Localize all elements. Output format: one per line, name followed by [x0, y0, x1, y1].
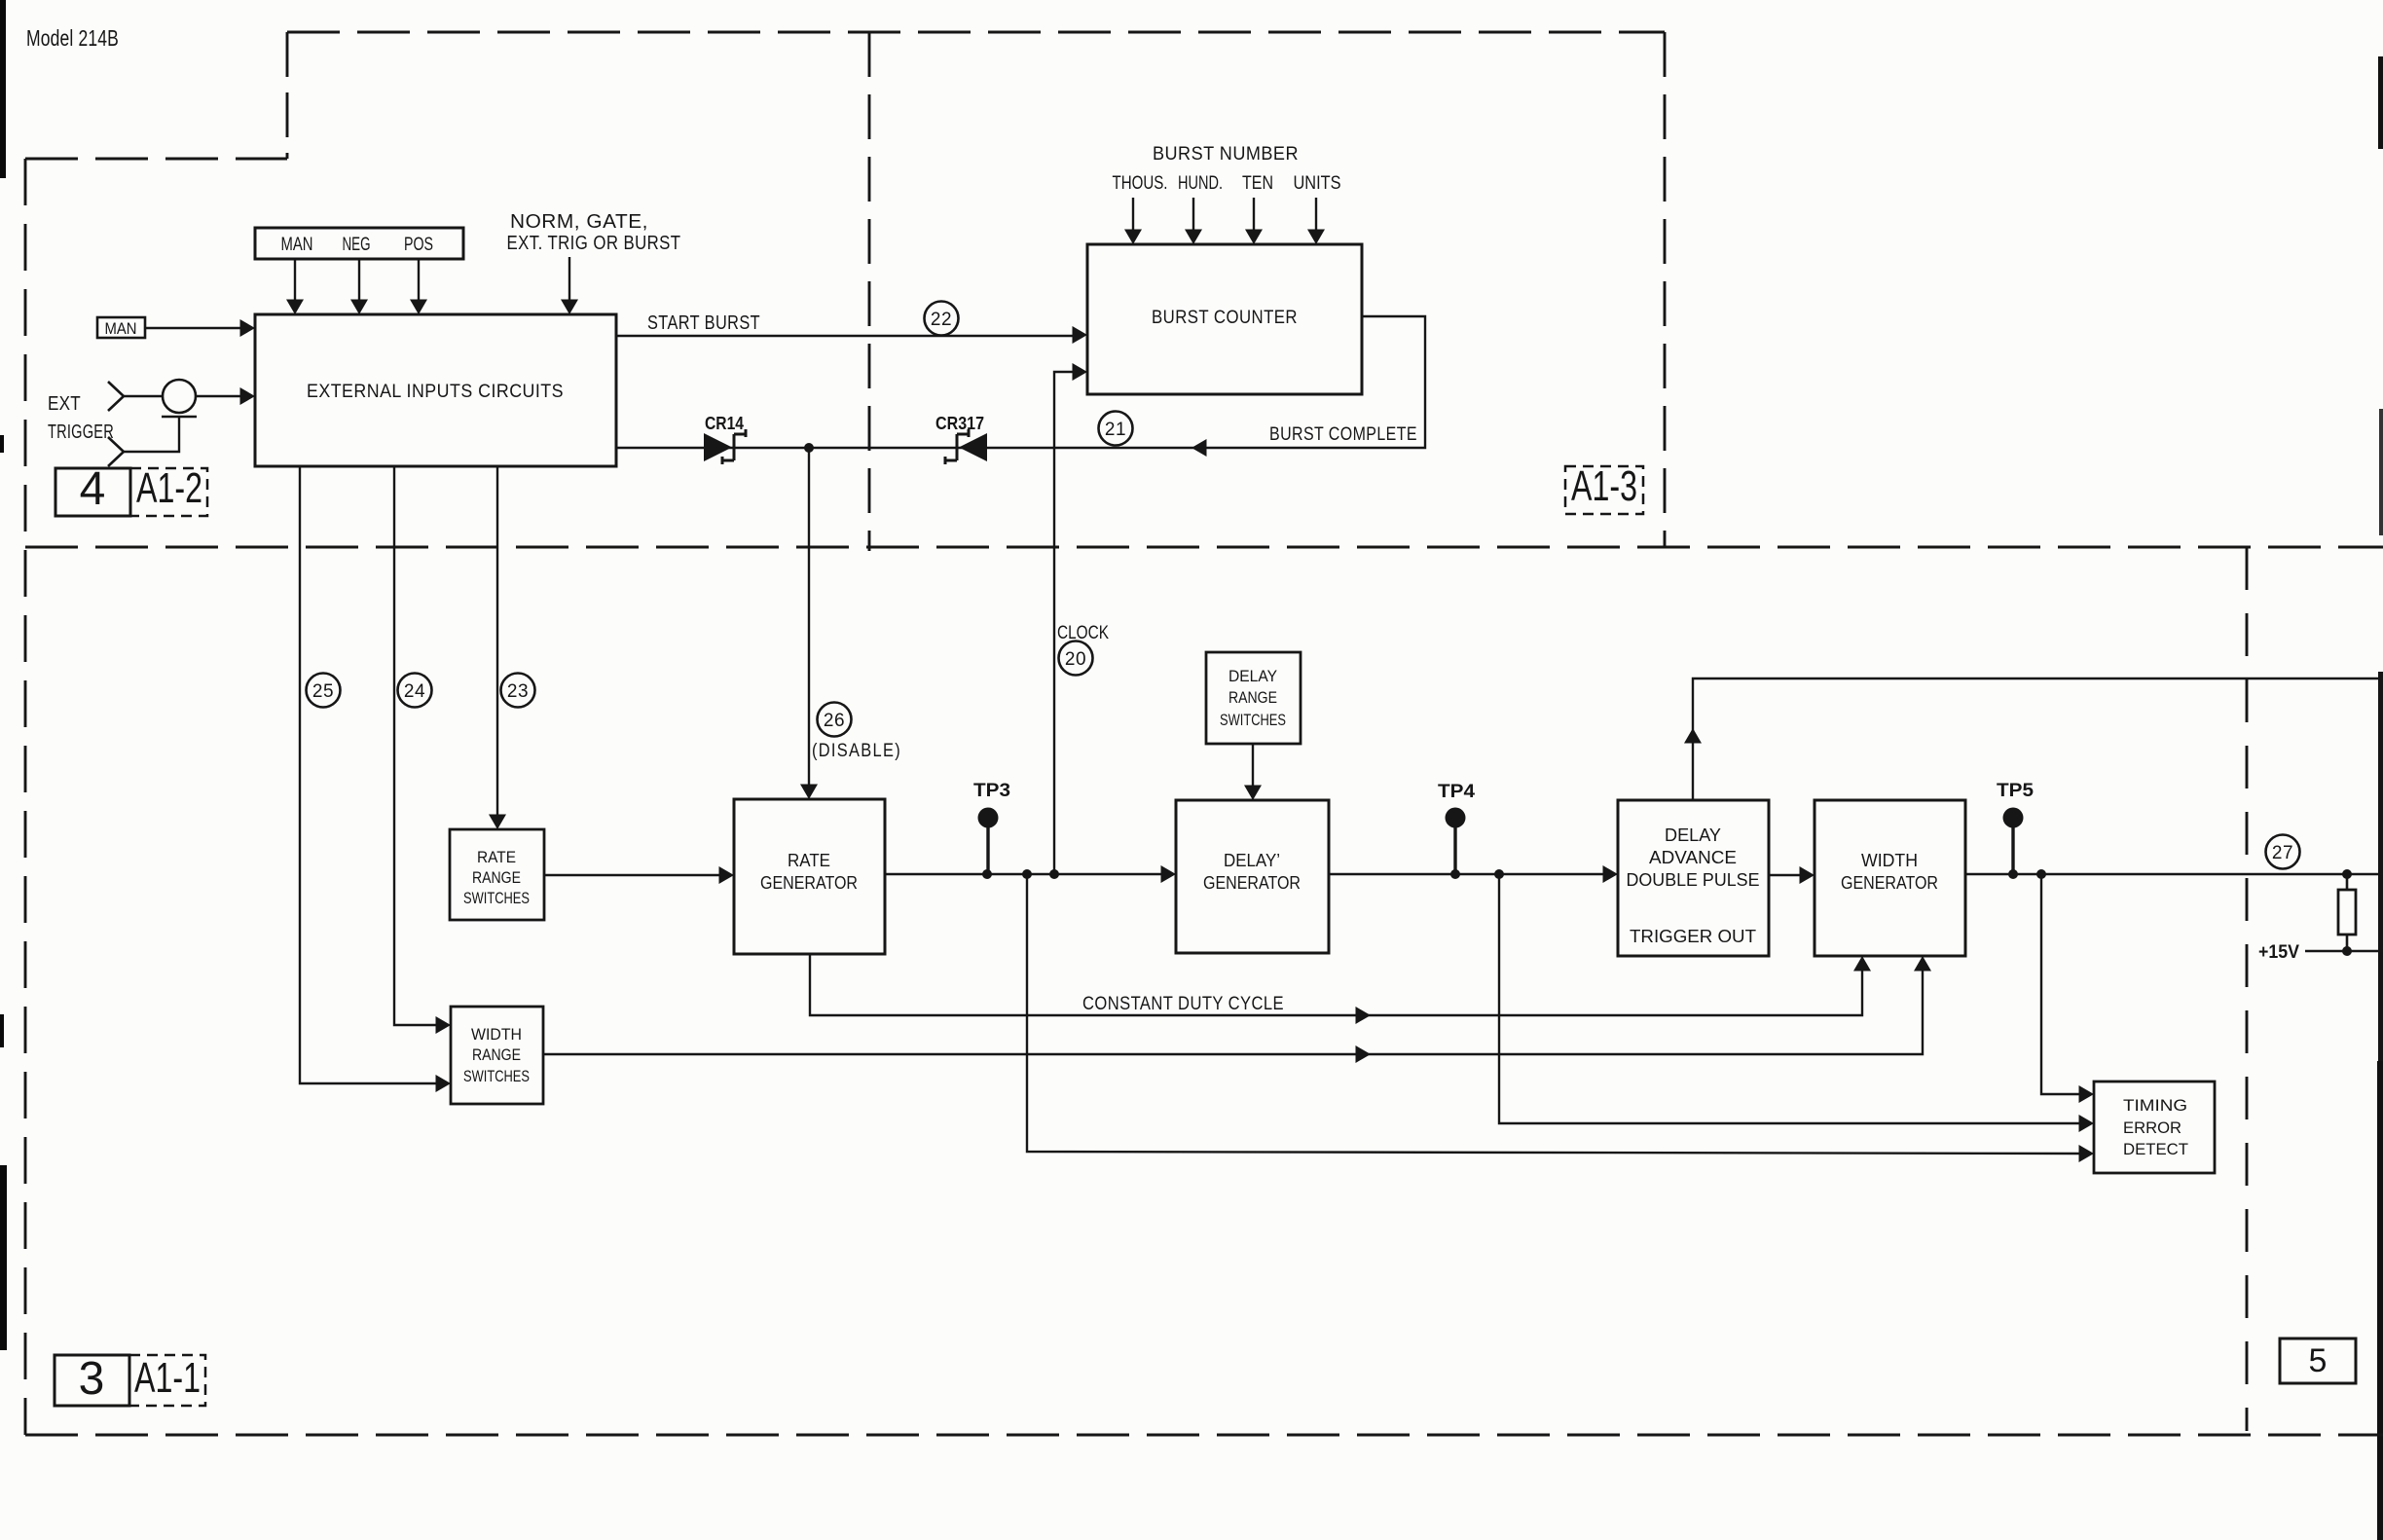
- wire HUND arrow: [1185, 198, 1202, 244]
- scan edge artifact left top: [0, 0, 6, 178]
- tag sheet 3: [55, 1353, 129, 1406]
- block RATE GENERATOR: [734, 799, 885, 954]
- label DISABLE: [812, 741, 901, 761]
- node junction tap-1055: [1022, 869, 1032, 879]
- svg-text:ERROR: ERROR: [2123, 1118, 2181, 1137]
- testpoint TP5: [1997, 781, 2034, 874]
- wire POS switch arrow: [410, 259, 427, 314]
- wire rate generator to delay generator: [885, 865, 1176, 883]
- scan edge artifact right band: [2377, 56, 2383, 1540]
- node circled 21: [1099, 412, 1133, 446]
- svg-text:CONSTANT DUTY CYCLE: CONSTANT DUTY CYCLE: [1082, 994, 1284, 1014]
- wire feed 25 to width range switches: [300, 466, 451, 1092]
- wire ext trigger to circle: [124, 395, 163, 397]
- svg-text:5: 5: [2309, 1342, 2328, 1379]
- wire width generator output: [1965, 873, 2383, 875]
- border A1-3 right vertical dashed: [1664, 32, 1667, 547]
- svg-text:GENERATOR: GENERATOR: [760, 873, 858, 893]
- arrow burst complete direction: [1191, 439, 1207, 457]
- node circled 20: [1059, 642, 1093, 676]
- svg-text:BURST NUMBER: BURST NUMBER: [1153, 144, 1299, 165]
- node junction +15V: [2342, 946, 2352, 956]
- border A1-2/A1-3 top dashed: [287, 31, 1665, 34]
- border A1-1 top dashed: [25, 546, 2383, 549]
- svg-text:NORM, GATE,: NORM, GATE,: [510, 211, 648, 233]
- node circled 24: [398, 674, 432, 708]
- svg-text:DETECT: DETECT: [2123, 1140, 2188, 1158]
- svg-text:SWITCHES: SWITCHES: [1220, 711, 1286, 729]
- wire delay advance to width generator: [1769, 866, 1815, 884]
- wire delay range to delay generator: [1244, 744, 1262, 800]
- label CONSTANT DUTY CYCLE: [1082, 994, 1284, 1014]
- svg-text:TEN: TEN: [1242, 173, 1273, 194]
- block EXTERNAL INPUTS CIRCUITS: [255, 314, 616, 466]
- svg-text:THOUS.: THOUS.: [1113, 173, 1168, 194]
- svg-text:NEG: NEG: [343, 235, 371, 255]
- wire circle to external inputs: [196, 387, 255, 405]
- wire clock net: [1054, 363, 1087, 874]
- svg-text:24: 24: [404, 681, 425, 702]
- svg-text:26: 26: [824, 711, 845, 731]
- node junction clock: [1049, 869, 1059, 879]
- svg-text:DELAY: DELAY: [1665, 825, 1721, 845]
- label NORM GATE EXT TRIG OR BURST: [507, 211, 681, 254]
- block RATE RANGE SWITCHES: [450, 829, 544, 920]
- svg-text:(DISABLE): (DISABLE): [812, 741, 901, 761]
- svg-text:UNITS: UNITS: [1294, 173, 1341, 194]
- svg-text:22: 22: [931, 310, 952, 330]
- svg-text:23: 23: [507, 681, 529, 702]
- svg-text:21: 21: [1105, 420, 1126, 440]
- label START BURST: [647, 312, 760, 334]
- svg-text:MAN: MAN: [281, 235, 313, 255]
- connector ext trigger lower chevron: [108, 437, 124, 466]
- block TIMING ERROR DETECT: [2094, 1082, 2215, 1173]
- label EXT TRIGGER: [48, 393, 114, 443]
- label CR317: [935, 414, 984, 433]
- border A1-1 right vertical dashed: [2246, 547, 2249, 1431]
- border A1-2 top-left step vertical dashed: [286, 32, 289, 159]
- node junction TP5: [2008, 869, 2018, 879]
- svg-text:WIDTH: WIDTH: [1861, 851, 1918, 870]
- svg-text:RANGE: RANGE: [472, 1045, 521, 1064]
- svg-text:A1-3: A1-3: [1571, 462, 1637, 510]
- svg-text:RANGE: RANGE: [472, 868, 521, 887]
- connector ext trigger upper chevron: [108, 382, 124, 411]
- svg-text:+15V: +15V: [2258, 942, 2299, 963]
- tag A1-1: [129, 1354, 205, 1406]
- wire feed 23 to rate range switches: [489, 466, 506, 829]
- svg-text:HUND.: HUND.: [1178, 173, 1223, 194]
- node junction TP4: [1450, 869, 1460, 879]
- title Model 214B: [26, 25, 119, 51]
- svg-text:RATE: RATE: [477, 848, 516, 866]
- wire tap to timing error middle input: [1499, 874, 2094, 1132]
- svg-text:TP3: TP3: [973, 781, 1010, 801]
- block WIDTH GENERATOR: [1815, 800, 1965, 956]
- scan edge artifact left bottom: [0, 1165, 7, 1350]
- svg-text:GENERATOR: GENERATOR: [1841, 873, 1938, 893]
- svg-text:TRIGGER OUT: TRIGGER OUT: [1630, 927, 1756, 946]
- border bottom dashed: [25, 1434, 2383, 1437]
- tag sheet 5: [2280, 1338, 2356, 1383]
- svg-text:BURST COMPLETE: BURST COMPLETE: [1269, 424, 1417, 445]
- label THOUS: [1113, 173, 1168, 194]
- wire NORM/GATE arrow: [561, 257, 578, 314]
- wire tap to timing error top input: [2041, 874, 2094, 1103]
- svg-text:4: 4: [80, 463, 106, 515]
- svg-text:EXT. TRIG OR BURST: EXT. TRIG OR BURST: [507, 233, 681, 254]
- svg-text:ADVANCE: ADVANCE: [1649, 848, 1737, 867]
- svg-text:WIDTH: WIDTH: [471, 1025, 522, 1044]
- node circled 23: [501, 674, 535, 708]
- svg-text:CR14: CR14: [705, 414, 744, 433]
- block DELAY RANGE SWITCHES: [1206, 652, 1301, 744]
- label UNITS: [1294, 173, 1341, 194]
- svg-text:TRIGGER: TRIGGER: [48, 422, 114, 443]
- svg-text:EXT: EXT: [48, 393, 81, 415]
- wire disable line to rate generator: [800, 448, 818, 799]
- label TEN: [1242, 173, 1273, 194]
- wire width range to width generator: [543, 956, 1931, 1063]
- connector ext trigger jack circle: [162, 380, 197, 417]
- block WIDTH RANGE SWITCHES: [451, 1007, 543, 1104]
- svg-text:DELAY: DELAY: [1228, 667, 1277, 685]
- node junction tap-1540: [1494, 869, 1504, 879]
- svg-text:START BURST: START BURST: [647, 312, 760, 334]
- node circled 22: [925, 302, 959, 336]
- wire TEN arrow: [1245, 198, 1263, 244]
- tag sheet 4: [55, 463, 130, 516]
- border A1-2/A1-3 divider vertical dashed: [868, 32, 871, 551]
- wire tap to timing error bottom input: [1027, 874, 2094, 1162]
- svg-text:BURST COUNTER: BURST COUNTER: [1152, 308, 1298, 328]
- wire feed 24 to width range switches: [394, 466, 451, 1034]
- wire THOUS arrow: [1124, 198, 1142, 244]
- svg-text:CLOCK: CLOCK: [1057, 623, 1109, 643]
- wire burst complete loop: [616, 316, 1425, 448]
- svg-text:27: 27: [2272, 843, 2293, 863]
- label BURST NUMBER: [1153, 144, 1299, 165]
- svg-text:TIMING: TIMING: [2123, 1096, 2187, 1115]
- node circled 26: [818, 703, 852, 737]
- svg-text:POS: POS: [404, 235, 433, 255]
- wire NEG switch arrow: [350, 259, 368, 314]
- block BURST COUNTER: [1087, 244, 1362, 394]
- tag A1-2: [130, 464, 207, 516]
- svg-text:GENERATOR: GENERATOR: [1203, 873, 1301, 893]
- svg-text:3: 3: [79, 1353, 105, 1405]
- wire MAN switch arrow: [286, 259, 304, 314]
- label +15V: [2258, 942, 2299, 963]
- label CR14: [705, 414, 744, 433]
- svg-text:Model 214B: Model 214B: [26, 25, 119, 51]
- wire lower chevron up to jack: [124, 417, 179, 452]
- svg-text:A1-1: A1-1: [134, 1354, 201, 1402]
- svg-text:EXTERNAL INPUTS CIRCUITS: EXTERNAL INPUTS CIRCUITS: [307, 382, 564, 402]
- label HUND: [1178, 173, 1223, 194]
- svg-text:TP4: TP4: [1438, 782, 1475, 802]
- wire MAN to external inputs: [145, 319, 255, 337]
- node circled 25: [307, 674, 341, 708]
- svg-text:25: 25: [312, 681, 334, 702]
- svg-text:MAN: MAN: [105, 319, 137, 338]
- node MAN input box: [97, 317, 145, 338]
- wire delay generator to delay advance: [1329, 865, 1618, 883]
- wire rate range to rate generator: [544, 866, 734, 884]
- block DELAY ADVANCE DOUBLE PULSE TRIGGER OUT: [1618, 800, 1769, 956]
- border left vertical dashed: [24, 159, 27, 1435]
- switch label box MAN NEG POS: [255, 228, 463, 259]
- svg-text:DELAY’: DELAY’: [1224, 851, 1280, 870]
- scan edge artifact left small: [0, 435, 4, 1047]
- tag A1-3: [1565, 462, 1643, 514]
- testpoint TP4: [1438, 782, 1475, 874]
- node circled 27: [2266, 835, 2300, 869]
- node junction resistor top: [2342, 869, 2352, 879]
- svg-text:TP5: TP5: [1997, 781, 2034, 801]
- border A1-2 step horizontal dashed: [25, 158, 287, 161]
- label BURST COMPLETE: [1269, 424, 1417, 445]
- svg-text:SWITCHES: SWITCHES: [463, 1067, 530, 1085]
- resistor pull-up: [2338, 874, 2356, 951]
- node junction trigger/disable: [804, 443, 814, 453]
- svg-text:RATE: RATE: [788, 851, 830, 870]
- svg-text:A1-2: A1-2: [136, 464, 202, 512]
- diode CR14: [704, 429, 746, 464]
- label CLOCK: [1057, 623, 1109, 643]
- svg-text:RANGE: RANGE: [1228, 688, 1277, 707]
- diode CR317: [945, 429, 987, 464]
- testpoint TP3: [973, 781, 1010, 874]
- node junction tap-2097: [2036, 869, 2046, 879]
- wire +15V rail: [2305, 950, 2383, 952]
- svg-text:CR317: CR317: [935, 414, 984, 433]
- node junction TP3: [982, 869, 992, 879]
- svg-text:DOUBLE PULSE: DOUBLE PULSE: [1627, 870, 1760, 890]
- wire trigger out up and right: [1684, 678, 2383, 800]
- wire START BURST: [616, 326, 1087, 344]
- svg-text:SWITCHES: SWITCHES: [463, 889, 530, 907]
- wire constant duty cycle: [810, 954, 1871, 1024]
- wire UNITS arrow: [1307, 198, 1325, 244]
- block DELAY GENERATOR: [1176, 800, 1329, 953]
- svg-text:20: 20: [1065, 649, 1086, 670]
